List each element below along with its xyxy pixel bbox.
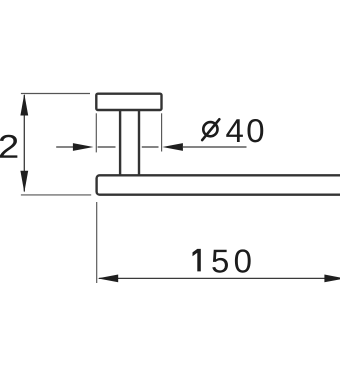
diameter symbol slash of ø40: [202, 119, 219, 140]
ø40 right arrowhead pointing left: [162, 143, 183, 151]
post left edge: [119, 110, 121, 175]
left dimension arrowhead down: [20, 171, 28, 193]
dimension text 150: digit 0: [235, 249, 251, 272]
ø40 left arrowhead pointing right: [73, 143, 94, 151]
ø40 dimension left tail line: [56, 146, 75, 148]
extension line below cap right edge: [161, 113, 163, 151]
ø40 dimension right tail line under text: [182, 146, 247, 148]
dimension text 40: digit 4: [226, 119, 243, 142]
extension line from bar left edge down to 150 dimension: [96, 202, 98, 283]
diameter symbol circle of ø40: [203, 122, 217, 136]
150 dimension line: [99, 277, 327, 279]
ø40 dimension stub between post and right extension line: [142, 146, 159, 148]
dimension text 150: digit 1: [193, 249, 201, 272]
dimension text 2 (leading digit clipped by image edge): [0, 135, 17, 158]
dimension text 150: digit 5: [212, 250, 228, 273]
extension line from cap top to left dimension: [21, 93, 90, 95]
extension line from bar bottom to left dimension: [21, 194, 91, 196]
ø40 dimension stub between left extension line and post: [98, 146, 116, 148]
post right edge: [138, 110, 140, 175]
bottom bar (rail), clipped at right edge: [97, 175, 340, 194]
150 right arrowhead pointing right, tip clipped by image edge: [324, 275, 340, 283]
150 left arrowhead pointing left: [98, 275, 119, 283]
left dimension arrowhead up: [20, 94, 28, 116]
left vertical dimension line: [23, 95, 25, 192]
extension line below cap left edge: [95, 113, 97, 152]
top plate (cap) of wall bracket: [96, 94, 161, 110]
dimension text 40: digit 0: [247, 119, 263, 142]
